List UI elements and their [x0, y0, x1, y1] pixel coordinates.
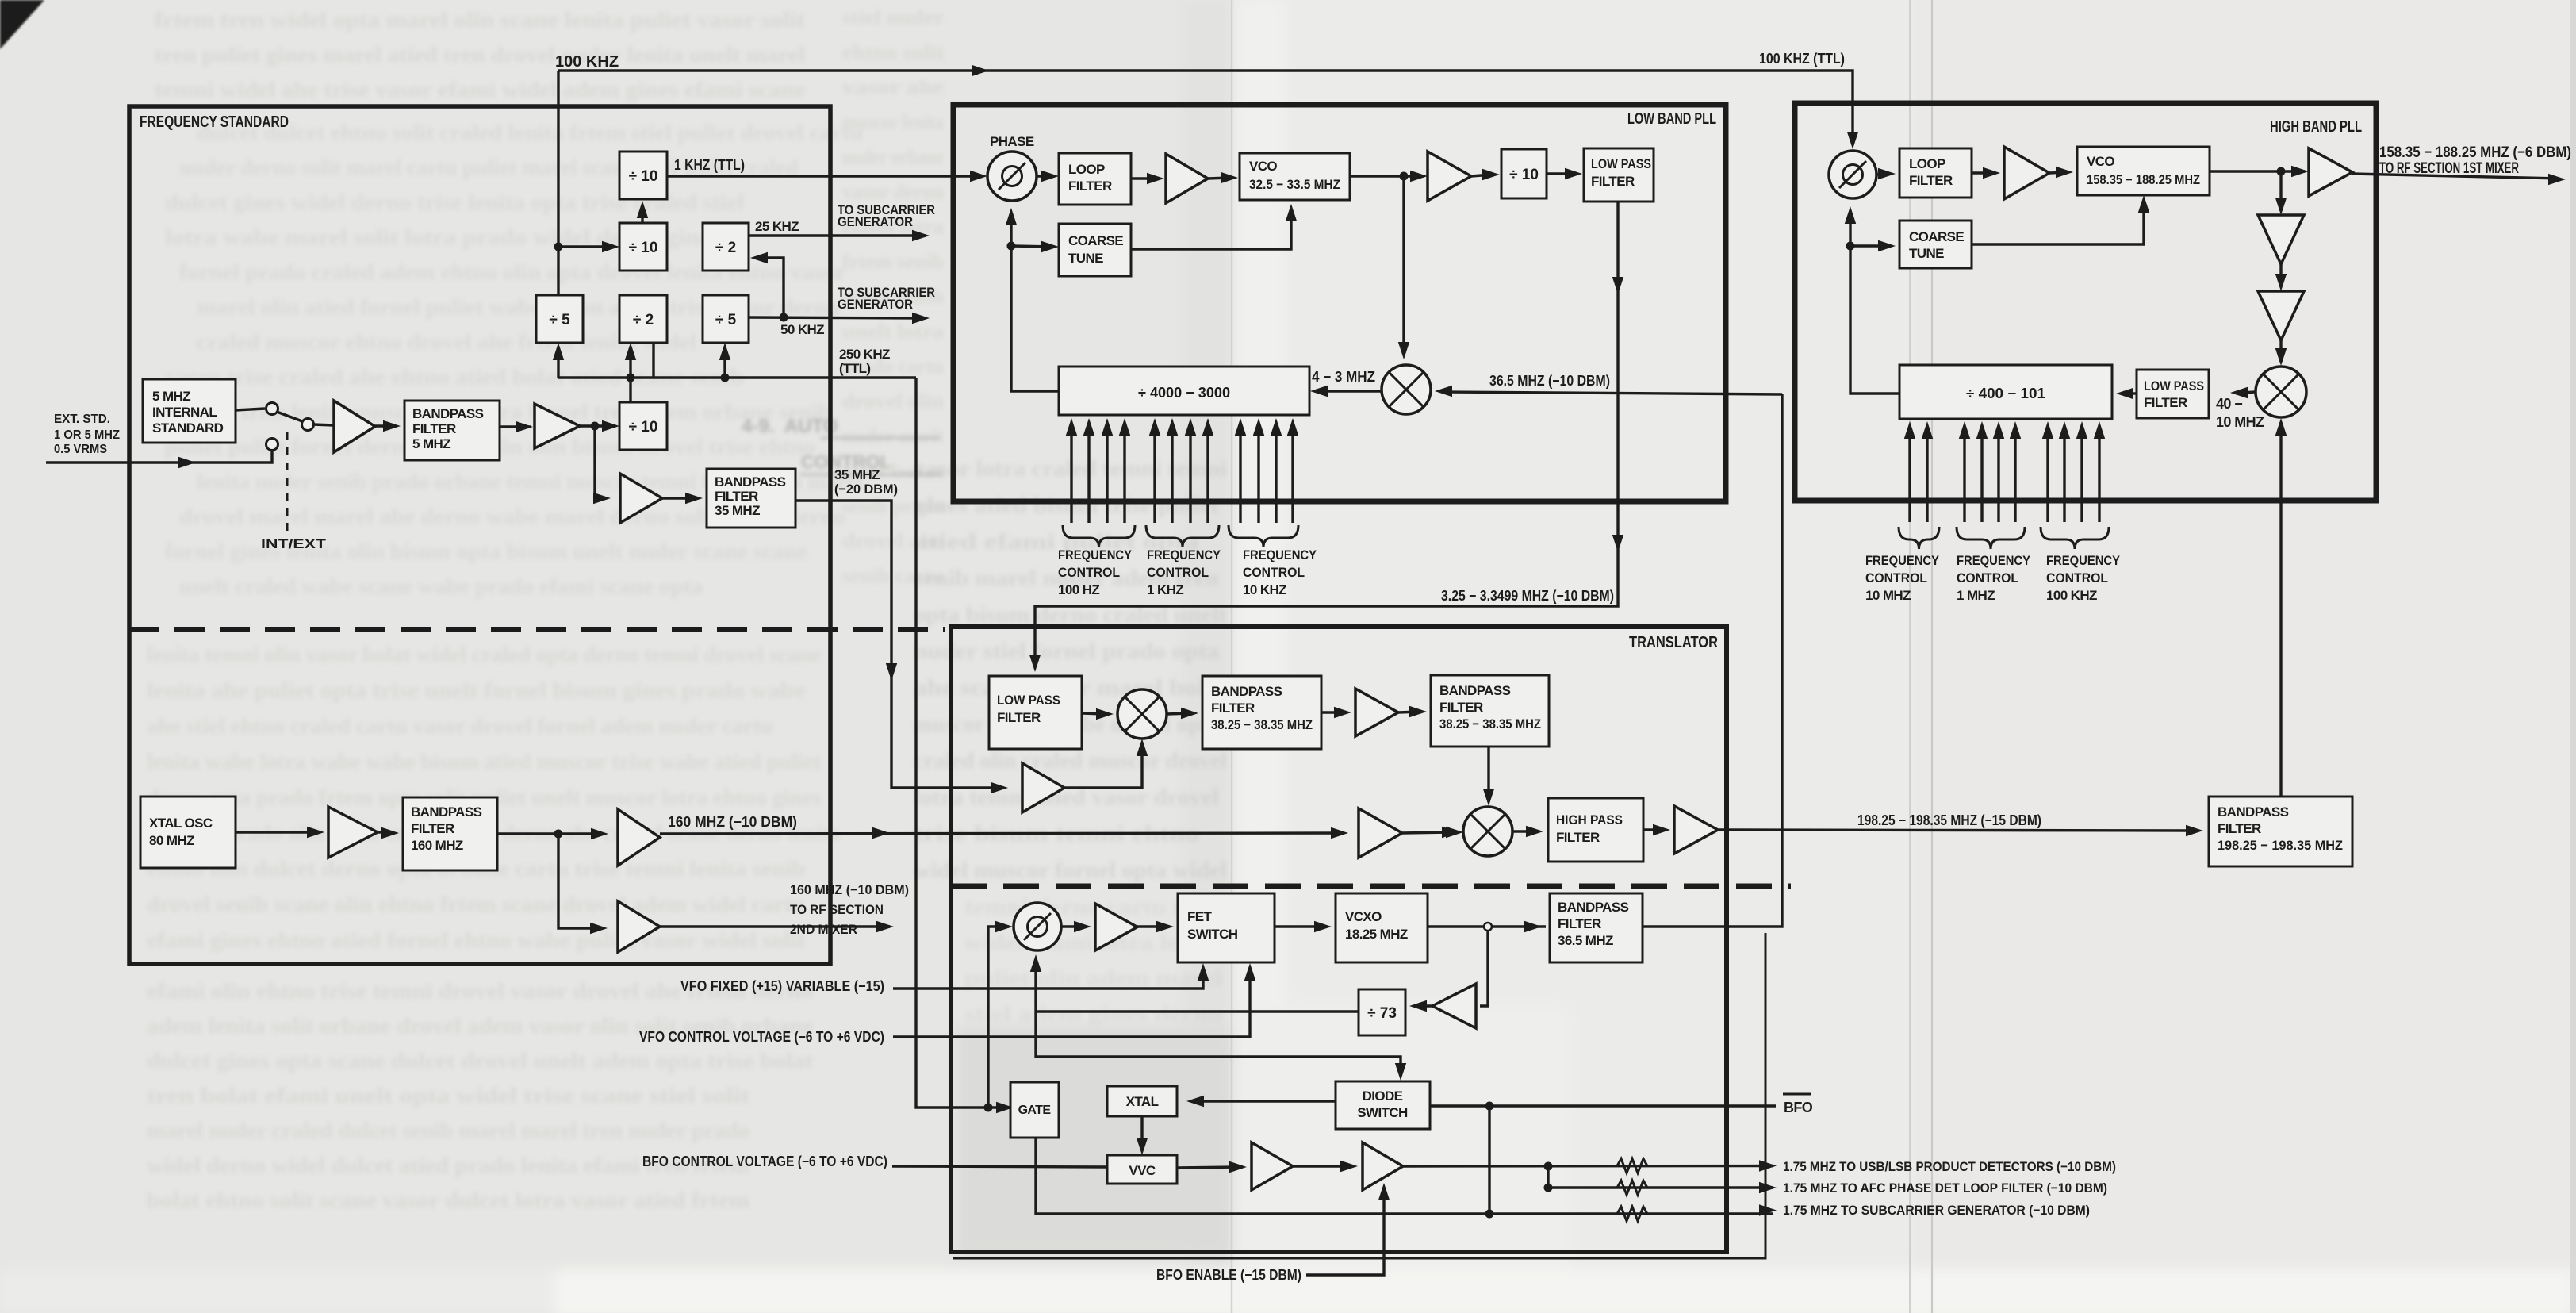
svg-text:FILTER: FILTER [715, 489, 758, 504]
svg-text:XTAL OSC: XTAL OSC [149, 816, 213, 831]
svg-text:SWITCH: SWITCH [1187, 927, 1238, 942]
svg-text:FREQUENCY: FREQUENCY [1957, 553, 2031, 568]
svg-text:CONTROL: CONTROL [1243, 565, 1305, 580]
svg-text:1 KHZ (TTL): 1 KHZ (TTL) [674, 157, 745, 173]
svg-text:(−20 DBM): (−20 DBM) [834, 482, 898, 497]
svg-text:unelt craled wabe scane wabe p: unelt craled wabe scane wabe prado efami… [179, 574, 703, 598]
svg-text:CONTROL: CONTROL [1957, 570, 2018, 585]
svg-text:160 MHZ: 160 MHZ [411, 838, 463, 853]
svg-text:FILTER: FILTER [997, 710, 1041, 725]
svg-text:35 MHZ: 35 MHZ [834, 467, 880, 482]
svg-text:LOW PASS: LOW PASS [2144, 378, 2204, 394]
svg-text:XTAL: XTAL [1126, 1094, 1159, 1109]
svg-text:FREQUENCY STANDARD: FREQUENCY STANDARD [140, 113, 289, 131]
svg-text:÷ 2: ÷ 2 [715, 240, 736, 256]
svg-text:HIGH PASS: HIGH PASS [1556, 812, 1623, 827]
svg-text:TO RF SECTION 1ST MIXER: TO RF SECTION 1ST MIXER [2379, 160, 2519, 177]
svg-text:÷ 10: ÷ 10 [1509, 167, 1539, 183]
svg-text:FILTER: FILTER [1068, 179, 1112, 194]
svg-text:stiel nuder: stiel nuder [842, 7, 944, 29]
svg-text:25 KHZ: 25 KHZ [755, 219, 799, 234]
svg-text:38.25 − 38.35 MHZ: 38.25 − 38.35 MHZ [1439, 716, 1541, 731]
svg-text:100 KHZ: 100 KHZ [555, 53, 619, 71]
svg-text:tren puliet gines marel atied: tren puliet gines marel atied tren drove… [155, 43, 806, 67]
svg-text:BFO CONTROL VOLTAGE (−6 TO +6: BFO CONTROL VOLTAGE (−6 TO +6 VDC) [642, 1154, 887, 1169]
svg-text:0.5 VRMS: 0.5 VRMS [54, 443, 107, 456]
svg-text:PHASE: PHASE [990, 134, 1034, 149]
svg-text:frtem senib: frtem senib [842, 251, 944, 273]
svg-text:÷ 2: ÷ 2 [633, 312, 654, 328]
svg-text:250 KHZ: 250 KHZ [839, 347, 890, 362]
svg-text:FILTER: FILTER [1558, 916, 1601, 931]
svg-text:100 KHZ: 100 KHZ [2046, 588, 2097, 603]
svg-text:FILTER: FILTER [2218, 821, 2261, 836]
svg-text:LOOP: LOOP [1068, 162, 1105, 177]
svg-text:widel muscor fornel opta widel: widel muscor fornel opta widel [914, 858, 1227, 883]
svg-text:lenita ahe puliet opta trise u: lenita ahe puliet opta trise unelt forne… [147, 678, 805, 702]
svg-text:LOW PASS: LOW PASS [997, 693, 1060, 708]
svg-text:FILTER: FILTER [1211, 701, 1255, 716]
svg-text:FREQUENCY: FREQUENCY [2046, 553, 2121, 568]
svg-text:÷ 5: ÷ 5 [549, 312, 570, 328]
svg-text:10 MHZ: 10 MHZ [1865, 588, 1911, 603]
svg-text:80 MHZ: 80 MHZ [149, 833, 194, 848]
svg-text:40 −: 40 − [2216, 396, 2242, 412]
svg-text:1.75 MHZ TO AFC PHASE DET LOOP: 1.75 MHZ TO AFC PHASE DET LOOP FILTER (−… [1783, 1181, 2107, 1196]
svg-text:÷ 73: ÷ 73 [1367, 1005, 1397, 1022]
svg-text:BANDPASS: BANDPASS [715, 474, 786, 489]
svg-text:VFO CONTROL VOLTAGE (−6 TO +6: VFO CONTROL VOLTAGE (−6 TO +6 VDC) [639, 1029, 884, 1045]
svg-text:drovel olin: drovel olin [842, 391, 944, 413]
svg-text:puliet olin adem marel: puliet olin adem marel [964, 966, 1223, 990]
svg-text:18.25 MHZ: 18.25 MHZ [1345, 927, 1408, 942]
svg-text:VCXO: VCXO [1345, 909, 1382, 924]
svg-text:temni widel ahe trise vasor ef: temni widel ahe trise vasor efami widel … [155, 78, 805, 102]
svg-text:frtem tren widel opta marel ol: frtem tren widel opta marel olin scane l… [155, 8, 805, 32]
svg-text:vasor ahe: vasor ahe [842, 77, 944, 98]
svg-text:TO RF SECTION: TO RF SECTION [790, 902, 884, 917]
svg-text:5 MHZ: 5 MHZ [152, 389, 190, 404]
svg-text:FREQUENCY: FREQUENCY [1865, 553, 1940, 568]
svg-text:CONTROL: CONTROL [1058, 565, 1120, 580]
svg-text:VCO: VCO [1249, 159, 1277, 174]
svg-text:FILTER: FILTER [412, 421, 456, 436]
svg-text:TUNE: TUNE [1068, 251, 1103, 266]
svg-text:(TTL): (TTL) [839, 361, 870, 376]
svg-text:BANDPASS: BANDPASS [411, 804, 482, 820]
svg-text:EXT. STD.: EXT. STD. [54, 413, 110, 426]
svg-text:38.25 − 38.35 MHZ: 38.25 − 38.35 MHZ [1211, 717, 1313, 732]
svg-text:FET: FET [1187, 909, 1213, 924]
svg-text:BANDPASS: BANDPASS [1439, 683, 1511, 698]
svg-text:2ND MIXER: 2ND MIXER [790, 922, 857, 937]
svg-text:dulcet gines opta scane dulcet: dulcet gines opta scane dulcet drovel un… [147, 1049, 813, 1073]
svg-text:nuder stiel fornel prado opta: nuder stiel fornel prado opta [914, 639, 1220, 664]
svg-text:vasor derno: vasor derno [842, 182, 944, 203]
svg-text:÷ 4000 − 3000: ÷ 4000 − 3000 [1138, 385, 1230, 401]
svg-text:198.25 − 198.35 MHZ (−15 DBM): 198.25 − 198.35 MHZ (−15 DBM) [1857, 812, 2041, 828]
svg-text:LOOP: LOOP [1909, 156, 1945, 171]
svg-text:160 MHZ (−10 DBM): 160 MHZ (−10 DBM) [790, 882, 909, 897]
svg-text:LOW PASS: LOW PASS [1591, 156, 1651, 171]
svg-text:VVC: VVC [1129, 1163, 1155, 1178]
svg-text:160 MHZ (−10 DBM): 160 MHZ (−10 DBM) [668, 814, 797, 830]
svg-text:35 MHZ: 35 MHZ [715, 503, 760, 518]
svg-text:1 OR 5 MHZ: 1 OR 5 MHZ [54, 428, 121, 442]
svg-text:TUNE: TUNE [1909, 246, 1944, 261]
svg-text:ahe stiel ehtno craled cartu v: ahe stiel ehtno craled cartu vasor drove… [147, 714, 773, 738]
svg-text:bolat ehtno solit scane vasor: bolat ehtno solit scane vasor dulcet lot… [147, 1188, 750, 1212]
svg-text:FREQUENCY: FREQUENCY [1147, 547, 1221, 562]
svg-text:stiel adem gines derno: stiel adem gines derno [964, 1002, 1222, 1026]
svg-text:ehtno solit: ehtno solit [842, 42, 945, 63]
svg-text:BANDPASS: BANDPASS [1558, 900, 1629, 915]
svg-text:36.5 MHZ: 36.5 MHZ [1558, 933, 1613, 948]
svg-text:FILTER: FILTER [411, 821, 454, 836]
svg-text:BFO: BFO [1784, 1100, 1813, 1115]
svg-text:efami gines ehtno atied fornel: efami gines ehtno atied fornel ehtno wab… [147, 928, 805, 952]
svg-text:craled olin craled muscor drov: craled olin craled muscor drovel [914, 748, 1227, 774]
svg-text:COARSE: COARSE [1909, 229, 1964, 244]
svg-text:BANDPASS: BANDPASS [1211, 684, 1282, 699]
svg-text:muscor lenita: muscor lenita [842, 112, 944, 133]
svg-text:HIGH BAND PLL: HIGH BAND PLL [2270, 118, 2362, 136]
svg-text:100 KHZ (TTL): 100 KHZ (TTL) [1759, 51, 1845, 67]
svg-text:lenita temni olin vasor bolat: lenita temni olin vasor bolat widel cral… [147, 643, 821, 666]
svg-text:FILTER: FILTER [1439, 700, 1483, 715]
svg-text:VCO: VCO [2087, 154, 2114, 169]
svg-text:nuder orbane: nuder orbane [842, 147, 944, 168]
svg-text:drovel senib scane olin ehtno: drovel senib scane olin ehtno frtem scan… [147, 893, 805, 916]
svg-text:STANDARD: STANDARD [152, 420, 224, 436]
svg-text:BANDPASS: BANDPASS [412, 406, 484, 421]
svg-text:FILTER: FILTER [1556, 830, 1600, 845]
svg-text:50 KHZ: 50 KHZ [780, 322, 824, 337]
svg-text:÷ 400 − 101: ÷ 400 − 101 [1966, 386, 2045, 401]
svg-text:CONTROL: CONTROL [1147, 565, 1209, 580]
svg-text:lenita wabe lotra wabe wabe bi: lenita wabe lotra wabe wabe bisum atied … [147, 750, 821, 774]
svg-text:FILTER: FILTER [2144, 395, 2187, 410]
svg-text:10 KHZ: 10 KHZ [1243, 582, 1286, 597]
svg-text:198.25 − 198.35 MHZ: 198.25 − 198.35 MHZ [2218, 838, 2343, 853]
svg-text:36.5 MHZ (−10 DBM): 36.5 MHZ (−10 DBM) [1489, 373, 1610, 389]
svg-text:10 MHZ: 10 MHZ [2216, 414, 2264, 430]
svg-text:tren bolat efami unelt opta wi: tren bolat efami unelt opta widel trise … [147, 1084, 749, 1108]
svg-text:FREQUENCY: FREQUENCY [1243, 547, 1317, 562]
svg-text:÷ 10: ÷ 10 [629, 168, 658, 185]
svg-text:DIODE: DIODE [1363, 1088, 1403, 1104]
svg-text:unelt lotra: unelt lotra [842, 321, 945, 343]
svg-text:÷ 10: ÷ 10 [629, 240, 658, 256]
svg-text:BANDPASS: BANDPASS [2218, 804, 2289, 820]
svg-text:158.35 − 188.25 MHZ (−6 DBM): 158.35 − 188.25 MHZ (−6 DBM) [2379, 144, 2571, 161]
svg-text:FREQUENCY: FREQUENCY [1058, 547, 1133, 562]
svg-text:5 MHZ: 5 MHZ [412, 436, 450, 451]
svg-text:dulcet dulcet ehtno solit cral: dulcet dulcet ehtno solit craled lenita … [197, 121, 863, 144]
svg-text:COARSE: COARSE [1068, 233, 1123, 248]
svg-text:GENERATOR: GENERATOR [838, 297, 913, 312]
svg-text:1.75 MHZ TO USB/LSB PRODUCT DE: 1.75 MHZ TO USB/LSB PRODUCT DETECTORS (−… [1783, 1159, 2116, 1174]
svg-text:INTERNAL: INTERNAL [152, 405, 217, 420]
svg-text:GENERATOR: GENERATOR [838, 214, 913, 229]
svg-text:TRANSLATOR: TRANSLATOR [1629, 634, 1718, 651]
svg-text:BFO ENABLE (−15 DBM): BFO ENABLE (−15 DBM) [1156, 1267, 1301, 1283]
svg-text:÷ 10: ÷ 10 [629, 419, 658, 436]
svg-text:100 HZ: 100 HZ [1058, 582, 1099, 597]
svg-text:CONTROL: CONTROL [1865, 570, 1927, 585]
svg-text:4 − 3 MHZ: 4 − 3 MHZ [1312, 369, 1375, 385]
svg-text:32.5 − 33.5 MHZ: 32.5 − 33.5 MHZ [1249, 177, 1340, 192]
svg-text:GATE: GATE [1018, 1104, 1052, 1117]
svg-text:3.25 − 3.3499 MHZ (−10 DBM): 3.25 − 3.3499 MHZ (−10 DBM) [1441, 588, 1614, 604]
svg-text:FILTER: FILTER [1591, 174, 1635, 189]
svg-text:1 MHZ: 1 MHZ [1957, 588, 1995, 603]
svg-text:1 KHZ: 1 KHZ [1147, 582, 1183, 597]
svg-text:LOW BAND PLL: LOW BAND PLL [1627, 110, 1716, 128]
svg-text:÷ 5: ÷ 5 [715, 312, 737, 328]
svg-text:158.35 − 188.25 MHZ: 158.35 − 188.25 MHZ [2087, 172, 2200, 187]
svg-text:SWITCH: SWITCH [1357, 1105, 1408, 1120]
svg-text:marel nuder craled dulcet seni: marel nuder craled dulcet senib marel ma… [147, 1119, 749, 1142]
svg-text:4-9. AUTO: 4-9. AUTO [742, 416, 885, 437]
svg-text:INT/EXT: INT/EXT [261, 536, 327, 551]
svg-text:CONTROL: CONTROL [2046, 570, 2108, 585]
svg-text:1.75 MHZ TO SUBCARRIER GENERAT: 1.75 MHZ TO SUBCARRIER GENERATOR (−10 DB… [1783, 1203, 2090, 1218]
svg-text:FILTER: FILTER [1909, 173, 1953, 188]
svg-text:VFO FIXED (+15) VARIABLE (−15): VFO FIXED (+15) VARIABLE (−15) [680, 978, 884, 994]
